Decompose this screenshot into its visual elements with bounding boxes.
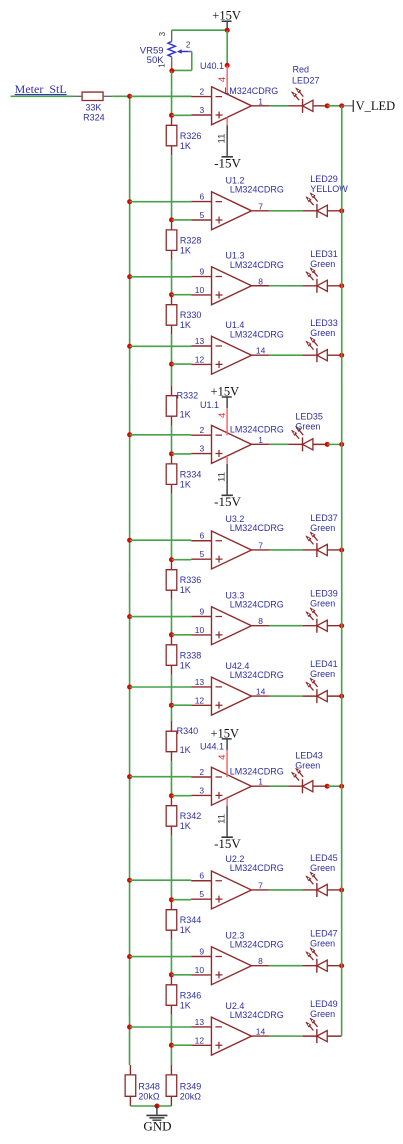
resistor R326 1K	[166, 115, 201, 155]
svg-text:R340: R340	[177, 726, 199, 736]
wire to V_LED bus	[327, 785, 342, 787]
junction signal bus at U3.3	[127, 614, 132, 619]
svg-text:10: 10	[195, 965, 205, 975]
junction chain at U42.4 +input	[169, 703, 174, 708]
resistor R348 20k	[125, 1065, 160, 1106]
label LED47 Green	[310, 929, 338, 949]
svg-text:Green: Green	[310, 599, 335, 609]
svg-text:5: 5	[199, 549, 204, 559]
svg-text:-15V: -15V	[214, 494, 241, 509]
svg-text:9: 9	[199, 946, 204, 956]
svg-text:R328: R328	[180, 235, 202, 245]
op-amp U42.4 LM324CDRG	[191, 661, 284, 715]
svg-text:Green: Green	[310, 863, 335, 873]
op-amp U2.3 LM324CDRG	[191, 930, 284, 984]
junction V_LED bus at LED27	[339, 103, 344, 108]
wire chain segment	[170, 836, 172, 900]
label LED35 Green	[295, 412, 323, 432]
svg-text:LED37: LED37	[310, 513, 338, 523]
junction V_LED bus at LED45	[339, 887, 344, 892]
ground symbol GND	[143, 1106, 171, 1134]
svg-text:LM324CDRG: LM324CDRG	[230, 600, 284, 610]
svg-text:R348: R348	[138, 1081, 160, 1091]
wire bus to U1.3 -input	[130, 276, 192, 278]
svg-text:LED43: LED43	[295, 751, 323, 761]
svg-text:LED33: LED33	[310, 318, 338, 328]
wire U44.1 output to LED43	[269, 785, 288, 787]
junction V_LED bus at LED41	[339, 694, 344, 699]
wire chain to U2.2 +input	[171, 899, 191, 901]
svg-text:Green: Green	[310, 328, 335, 338]
wire bus to U40.1 -input	[130, 95, 192, 97]
LED LED45	[303, 872, 342, 897]
svg-text:50K: 50K	[147, 55, 165, 66]
junction chain at U1.1 +input	[169, 451, 174, 456]
LED LED33	[303, 337, 342, 362]
svg-text:1K: 1K	[180, 925, 191, 935]
wire from potentiometer top to +15V	[172, 29, 228, 31]
wire U3.3 output to LED39	[269, 625, 303, 627]
label LED49 Green	[310, 999, 338, 1019]
op-amp U3.2 LM324CDRG	[191, 514, 284, 569]
junction signal bus at U1.1	[127, 432, 132, 437]
svg-text:2: 2	[200, 87, 205, 97]
wire chain segment	[171, 364, 173, 386]
svg-text:5: 5	[200, 210, 205, 220]
junction chain at U3.3 +input	[169, 632, 174, 637]
pin 11 of U40.1	[217, 117, 228, 143]
junction chain at U1.3 +input	[169, 292, 174, 297]
label LED29 YELLOW	[310, 174, 348, 194]
op-amp U1.3 LM324CDRG	[191, 251, 284, 305]
svg-text:13: 13	[195, 1017, 205, 1027]
wire R324 to U40.1 pin 2	[112, 95, 191, 97]
svg-text:1K: 1K	[180, 479, 191, 489]
svg-text:U44.1: U44.1	[200, 742, 224, 752]
svg-text:1K: 1K	[180, 141, 191, 151]
junction chain at U3.2 +input	[169, 557, 174, 562]
wire U2.3 output to LED47	[269, 965, 303, 967]
junction V_LED bus at LED31	[339, 283, 344, 288]
svg-text:1K: 1K	[180, 821, 191, 831]
LED LED39	[303, 608, 342, 633]
svg-text:LM324CDRG: LM324CDRG	[230, 329, 284, 339]
op-amp U2.4 LM324CDRG	[191, 1001, 284, 1055]
resistor R349 20k	[166, 1065, 201, 1106]
wire U2.2 output to LED45	[269, 889, 303, 891]
wire chain to R349	[170, 1045, 172, 1065]
svg-text:2: 2	[199, 425, 204, 435]
svg-text:LED39: LED39	[310, 589, 338, 599]
wire bus to U1.1 -input	[130, 434, 192, 436]
svg-text:1K: 1K	[180, 1000, 191, 1010]
wire chain segment	[171, 335, 173, 364]
svg-text:R326: R326	[180, 131, 202, 141]
svg-text:8: 8	[258, 956, 263, 966]
svg-text:10: 10	[195, 285, 205, 295]
svg-text:2: 2	[199, 767, 204, 777]
wire reference chain (pot to U40.1 +input)	[171, 71, 173, 116]
wire V_LED bus (right)	[341, 106, 343, 1036]
svg-text:14: 14	[256, 346, 266, 356]
label LED39 Green	[310, 589, 338, 609]
svg-text:9: 9	[199, 606, 204, 616]
svg-text:6: 6	[200, 192, 205, 202]
svg-text:3: 3	[158, 31, 167, 36]
junction chain at U44.1 +input	[169, 793, 174, 798]
svg-text:33K: 33K	[85, 102, 101, 112]
svg-text:LED49: LED49	[310, 999, 338, 1009]
wire U1.2 output to LED29	[269, 210, 303, 212]
junction V_LED bus at LED33	[339, 353, 344, 358]
wire chain segment	[171, 260, 173, 295]
svg-text:-15V: -15V	[214, 836, 241, 851]
wire chain to U40.1 +input	[172, 114, 192, 116]
wire chain to U2.3 +input	[171, 974, 191, 976]
resistor R342 1K	[166, 796, 201, 836]
wire U3.2 output to LED37	[269, 549, 303, 551]
wire chain to U44.1 +input	[171, 795, 191, 797]
resistor R330 1K	[166, 295, 201, 335]
svg-text:6: 6	[199, 871, 204, 881]
svg-text:Green: Green	[295, 761, 320, 771]
svg-text:U40.1: U40.1	[200, 61, 224, 71]
resistor R334 1K	[166, 454, 201, 494]
svg-text:1K: 1K	[180, 409, 191, 419]
svg-text:1: 1	[258, 96, 263, 106]
svg-text:YELLOW: YELLOW	[310, 184, 348, 194]
pin 4 of U44.1 (red power pin)	[217, 750, 228, 777]
wire U42.4 output to LED41	[269, 695, 303, 697]
junction pot bottom	[169, 68, 174, 73]
junction at LED27 cathode	[325, 103, 330, 108]
svg-text:1K: 1K	[180, 585, 191, 595]
wire U40.1 output to LED27	[269, 105, 288, 107]
svg-text:R342: R342	[180, 811, 202, 821]
wire chain to U1.1 +input	[172, 453, 192, 455]
wire bus to U2.4 -input	[130, 1026, 192, 1028]
junction V_LED bus at LED37	[339, 547, 344, 552]
LED LED27	[288, 88, 327, 113]
power symbol -15V at U40.1	[214, 125, 241, 170]
pin 11 of U44.1	[216, 798, 227, 824]
junction at LED43 cathode	[325, 784, 330, 789]
svg-text:9: 9	[200, 267, 205, 277]
junction chain at U2.4 +input	[169, 1043, 174, 1048]
svg-text:7: 7	[258, 880, 263, 890]
wire U1.4 output to LED33	[269, 354, 303, 356]
svg-text:U1.1: U1.1	[200, 400, 219, 410]
junction signal bus at U42.4	[127, 684, 132, 689]
wire chain to U3.3 +input	[171, 634, 191, 636]
LED LED29	[303, 193, 342, 218]
svg-text:1: 1	[258, 777, 263, 787]
svg-text:-15V: -15V	[214, 156, 241, 171]
potentiometer VR59 50K	[140, 30, 192, 71]
svg-text:LED31: LED31	[310, 249, 338, 259]
wire bus to U44.1 -input	[130, 776, 192, 778]
op-amp U40.1 LM324CDRG	[191, 61, 278, 125]
svg-text:3: 3	[200, 105, 205, 115]
wire Meter_StL input	[11, 95, 74, 97]
wire chain segment	[170, 761, 172, 796]
wire bus to U1.2 -input	[130, 201, 192, 203]
label LED43 Green	[295, 751, 323, 771]
svg-text:11: 11	[217, 472, 228, 482]
wire U2.4 output to LED49	[269, 1035, 303, 1037]
junction V_LED bus at LED47	[339, 963, 344, 968]
wire chain segment	[170, 675, 172, 705]
wire U1.3 output to LED31	[269, 285, 303, 287]
svg-text:GND: GND	[143, 1118, 171, 1133]
wire chain segment	[170, 600, 172, 635]
wire chain to U42.4 +input	[171, 704, 191, 706]
svg-text:R330: R330	[180, 310, 202, 320]
svg-text:5: 5	[199, 889, 204, 899]
svg-text:7: 7	[258, 540, 263, 550]
LED LED43	[288, 768, 327, 793]
op-amp U44.1 LM324CDRG	[191, 742, 284, 806]
svg-text:6: 6	[199, 531, 204, 541]
resistor R328 1K	[166, 220, 201, 260]
pin 4 of U1.1 (red power pin)	[217, 408, 228, 435]
wire chain segment	[171, 426, 173, 454]
junction signal bus at U1.3	[127, 274, 132, 279]
junction V_LED bus at LED43	[339, 784, 344, 789]
junction V_LED bus at LED35	[339, 442, 344, 447]
svg-text:Green: Green	[310, 939, 335, 949]
svg-text:LM324CDRG: LM324CDRG	[230, 185, 284, 195]
LED LED37	[303, 532, 342, 557]
svg-text:Meter_StL: Meter_StL	[15, 82, 67, 96]
U40.1 pin 4 (red power pin)	[217, 65, 228, 96]
svg-text:R336: R336	[180, 575, 202, 585]
pin 11 of U1.1	[217, 456, 228, 482]
svg-text:4: 4	[217, 77, 228, 82]
wire bus to U2.3 -input	[130, 956, 192, 958]
power symbol +15V at U1.1	[211, 385, 240, 409]
svg-text:14: 14	[256, 1027, 266, 1037]
wire bus to U3.3 -input	[130, 616, 192, 618]
svg-text:13: 13	[195, 336, 205, 346]
wire bus to U2.2 -input	[130, 879, 192, 881]
svg-text:20kΩ: 20kΩ	[138, 1091, 160, 1101]
svg-text:12: 12	[195, 1035, 205, 1045]
junction signal bus at U2.3	[127, 954, 132, 959]
wire chain segment	[171, 494, 173, 560]
svg-text:1K: 1K	[180, 660, 191, 670]
wire chain to U2.4 +input	[171, 1044, 191, 1046]
svg-text:20kΩ: 20kΩ	[180, 1091, 202, 1101]
power symbol -15V at U44.1	[214, 806, 241, 851]
wire chain segment	[170, 940, 172, 975]
svg-text:8: 8	[258, 276, 263, 286]
junction signal bus at U2.4	[127, 1024, 132, 1029]
resistor R340 1K	[166, 721, 198, 761]
op-amp U1.2 LM324CDRG	[191, 175, 284, 229]
junction V_LED bus at LED29	[339, 208, 344, 213]
svg-text:LED27: LED27	[292, 76, 320, 86]
resistor R346 1K	[166, 975, 201, 1015]
svg-text:LED47: LED47	[310, 929, 338, 939]
svg-text:LED41: LED41	[310, 659, 338, 669]
wire to V_LED bus	[327, 105, 342, 107]
svg-text:11: 11	[217, 134, 228, 144]
junction at U40.1 pin 4	[225, 63, 230, 68]
label LED45 Green	[310, 853, 338, 873]
junction chain at U40.1 +input	[169, 113, 174, 118]
wire +15V down to U40.1 pin 4	[226, 30, 228, 65]
LED LED41	[303, 678, 342, 703]
wire left signal bus	[129, 96, 131, 1065]
op-amp U1.4 LM324CDRG	[191, 320, 284, 374]
LED LED49	[303, 1018, 342, 1043]
svg-text:R344: R344	[180, 915, 202, 925]
junction chain at U1.4 +input	[169, 362, 174, 367]
svg-text:Green: Green	[295, 422, 320, 432]
op-amp U3.3 LM324CDRG	[191, 590, 284, 644]
wire U1.1 output to LED35	[269, 443, 288, 445]
junction chain at U2.2 +input	[169, 897, 174, 902]
resistor R338 1K	[166, 635, 201, 675]
svg-text:LM324CDRG: LM324CDRG	[230, 863, 284, 873]
wire bus to U42.4 -input	[130, 686, 192, 688]
wire chain to U1.3 +input	[172, 294, 192, 296]
svg-text:LM324CDRG: LM324CDRG	[230, 523, 284, 533]
svg-text:Green: Green	[310, 259, 335, 269]
svg-text:7: 7	[258, 201, 263, 211]
svg-text:R324: R324	[83, 112, 105, 122]
svg-text:LED45: LED45	[310, 853, 338, 863]
svg-text:2: 2	[186, 40, 191, 49]
junction signal bus at U3.2	[127, 538, 132, 543]
svg-text:10: 10	[195, 625, 205, 635]
svg-text:1K: 1K	[180, 320, 191, 330]
junction signal bus at U2.2	[127, 878, 132, 883]
wire chain segment	[170, 705, 172, 721]
svg-text:Green: Green	[310, 523, 335, 533]
svg-text:12: 12	[195, 354, 205, 364]
resistor R332 1K	[166, 386, 198, 426]
svg-text:R334: R334	[180, 469, 202, 479]
junction signal bus at U1.4	[127, 344, 132, 349]
junction signal bus at U40.1	[127, 94, 132, 99]
power symbol +15V at U44.1	[210, 726, 239, 750]
junction at LED35 cathode	[325, 442, 330, 447]
svg-text:LM324CDRG: LM324CDRG	[230, 670, 284, 680]
op-amp U1.1 LM324CDRG	[191, 400, 284, 464]
svg-text:3: 3	[199, 785, 204, 795]
power symbol +15V (top)	[212, 9, 241, 31]
svg-text:V_LED: V_LED	[356, 99, 396, 113]
wire to V_LED bus	[327, 443, 342, 445]
wire chain to U1.2 +input	[172, 219, 192, 221]
svg-text:LM324CDRG: LM324CDRG	[230, 425, 284, 435]
label LED41 Green	[310, 659, 338, 679]
op-amp U2.2 LM324CDRG	[191, 854, 284, 909]
junction GND tap	[154, 1103, 159, 1108]
LED LED35	[288, 426, 327, 451]
svg-text:R349: R349	[180, 1081, 202, 1091]
svg-text:1K: 1K	[180, 245, 191, 255]
svg-text:LM324CDRG: LM324CDRG	[224, 86, 278, 96]
wire bus to U3.2 -input	[130, 539, 192, 541]
svg-text:R338: R338	[180, 650, 202, 660]
svg-text:1: 1	[258, 435, 263, 445]
svg-text:R346: R346	[180, 990, 202, 1000]
LED LED47	[303, 948, 342, 973]
junction signal bus at U44.1	[127, 774, 132, 779]
svg-text:Green: Green	[310, 669, 335, 679]
port V_LED	[342, 99, 395, 113]
svg-text:12: 12	[195, 695, 205, 705]
svg-text:R332: R332	[177, 391, 199, 401]
svg-text:14: 14	[256, 687, 266, 697]
wire chain segment	[170, 1015, 172, 1045]
wire bottom joining resistors	[130, 1105, 171, 1107]
svg-text:8: 8	[258, 616, 263, 626]
svg-text:13: 13	[195, 677, 205, 687]
wire chain segment	[171, 155, 173, 220]
power symbol -15V at U1.1	[214, 464, 241, 509]
label LED33 Green	[310, 318, 338, 338]
label LED31 Green	[310, 249, 338, 269]
svg-text:LM324CDRG: LM324CDRG	[230, 260, 284, 270]
label LED37 Green	[310, 513, 338, 533]
wire wiper loop	[172, 51, 192, 70]
junction V_LED bus at LED39	[339, 623, 344, 628]
junction signal bus at U1.2	[127, 199, 132, 204]
svg-text:LED29: LED29	[310, 174, 338, 184]
junction chain at U2.3 +input	[169, 972, 174, 977]
svg-text:LM324CDRG: LM324CDRG	[230, 1010, 284, 1020]
LED LED31	[303, 268, 342, 293]
svg-text:4: 4	[217, 413, 228, 418]
svg-text:11: 11	[216, 814, 227, 824]
resistor R324 33K	[73, 92, 112, 122]
svg-text:3: 3	[199, 444, 204, 454]
svg-text:4: 4	[217, 755, 228, 760]
resistor R336 1K	[166, 560, 201, 600]
svg-text:1K: 1K	[180, 745, 191, 755]
svg-text:LED35: LED35	[295, 412, 323, 422]
junction chain at U1.2 +input	[169, 217, 174, 222]
svg-text:Red: Red	[292, 65, 309, 75]
junction at +15V	[225, 28, 230, 33]
resistor R344 1K	[166, 900, 201, 940]
wire chain to U3.2 +input	[172, 559, 192, 561]
wire chain to U1.4 +input	[172, 363, 192, 365]
svg-text:LM324CDRG: LM324CDRG	[230, 940, 284, 950]
svg-text:LM324CDRG: LM324CDRG	[230, 766, 284, 776]
svg-text:Green: Green	[310, 1009, 335, 1019]
wire bus to U1.4 -input	[130, 345, 192, 347]
label LED27 Red	[292, 65, 320, 86]
